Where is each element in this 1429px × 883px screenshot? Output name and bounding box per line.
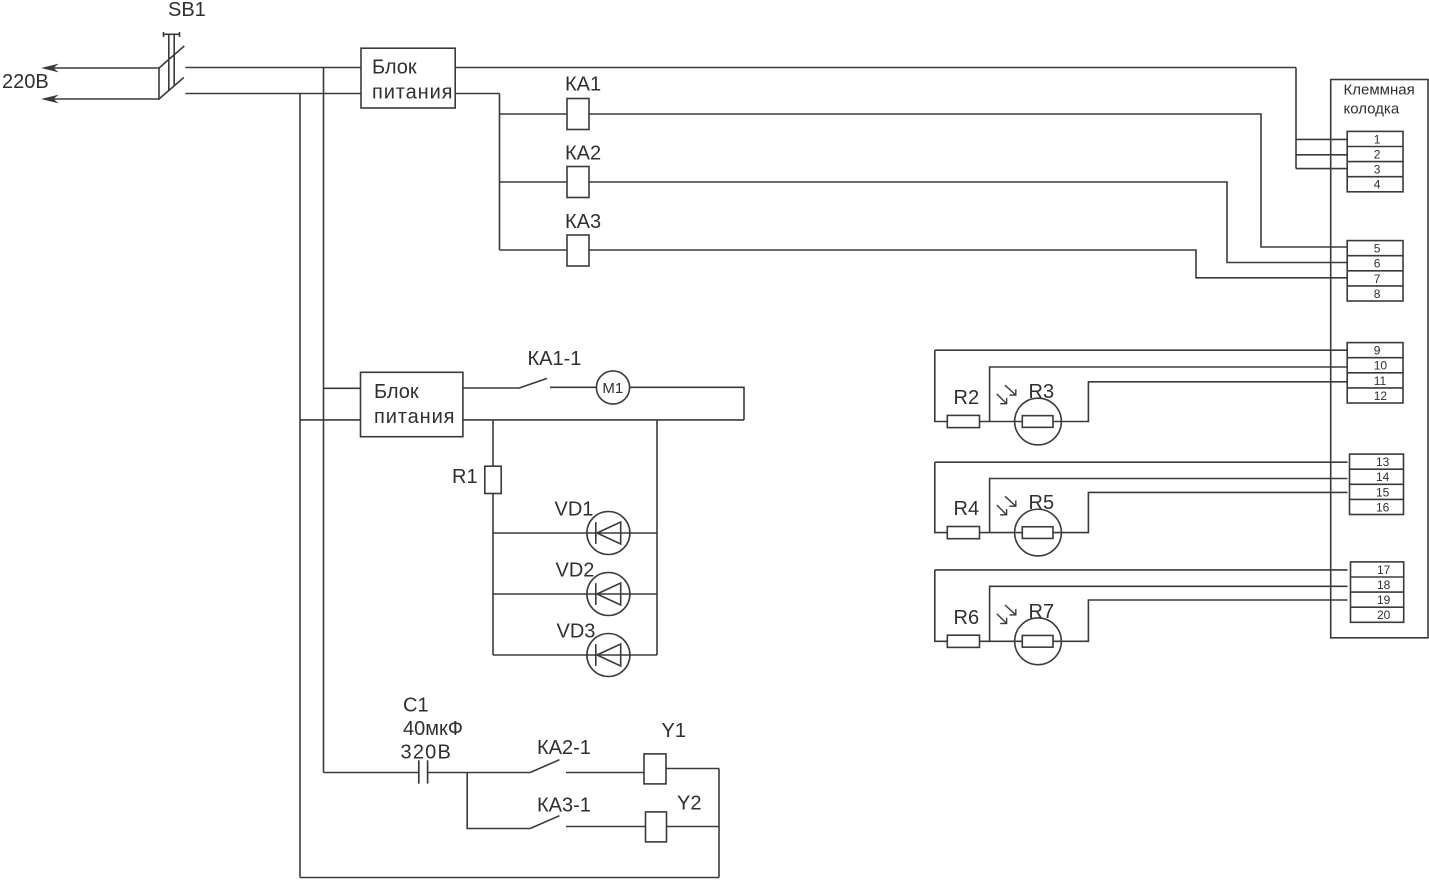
svg-text:11: 11 bbox=[1374, 374, 1387, 388]
wire into terminal 3 bbox=[1296, 168, 1348, 170]
svg-text:R3: R3 bbox=[1029, 381, 1055, 403]
svg-text:15: 15 bbox=[1376, 485, 1390, 499]
switch contact KA1-1 bbox=[519, 378, 548, 388]
svg-text:18: 18 bbox=[1377, 578, 1391, 592]
wire R5 to terminal (bottom tap) bbox=[1061, 492, 1347, 532]
svg-text:4: 4 bbox=[1374, 178, 1381, 192]
svg-text:Клеммная: Клеммная bbox=[1344, 82, 1415, 99]
wire switch KA3-1 to electromagnet Y2 bbox=[566, 826, 646, 828]
svg-text:КА3-1: КА3-1 bbox=[537, 795, 591, 817]
electromagnet Y2 bbox=[646, 812, 667, 842]
wire down to resistor R4 bbox=[935, 462, 948, 532]
svg-text:Y1: Y1 bbox=[662, 720, 686, 742]
svg-text:VD3: VD3 bbox=[557, 621, 596, 643]
resistor R1 bbox=[485, 466, 501, 493]
wire R6 circuit to terminal (top) bbox=[935, 569, 1348, 571]
label Клеммная колодка bbox=[1344, 82, 1415, 118]
svg-text:КА2-1: КА2-1 bbox=[537, 737, 591, 759]
power supply block 1 bbox=[361, 48, 455, 108]
wire vertical drop to terminals 1-3 bbox=[1295, 68, 1297, 169]
wire SB1 upper contact to power supply 1 bbox=[186, 67, 362, 69]
wire upper supply lead with arrow bbox=[41, 64, 159, 73]
terminal group 13-16 bbox=[1350, 454, 1404, 514]
wire Y2 to right return bus bbox=[667, 826, 720, 828]
svg-text:R6: R6 bbox=[954, 607, 980, 629]
wire branch down to switch KA3-1 bbox=[467, 773, 530, 829]
wire into terminal 2 bbox=[1296, 154, 1348, 156]
svg-text:КА1: КА1 bbox=[565, 74, 601, 96]
relay coil KA3 bbox=[567, 235, 589, 266]
svg-text:R4: R4 bbox=[954, 498, 980, 520]
wire bottom return bbox=[300, 877, 719, 879]
terminal group 1-4 bbox=[1347, 131, 1403, 191]
wire right return bus bbox=[718, 769, 720, 878]
svg-text:19: 19 bbox=[1377, 593, 1391, 607]
wire diode VD1 to right bus bbox=[630, 532, 657, 534]
svg-text:3: 3 bbox=[1374, 163, 1381, 177]
relay coil KA2 bbox=[567, 167, 589, 198]
svg-text:колодка: колодка bbox=[1344, 101, 1400, 118]
wire coil KA1 to terminal 5 bbox=[589, 114, 1348, 247]
svg-text:Блок: Блок bbox=[372, 57, 417, 79]
svg-text:2: 2 bbox=[1374, 147, 1381, 161]
wire right VD bus bbox=[656, 420, 658, 655]
wire down to resistor R2 bbox=[935, 350, 948, 421]
wire middle terminal tap of R3 bbox=[990, 367, 1348, 422]
wire middle terminal tap of R7 bbox=[990, 586, 1348, 641]
wire Y1 to right return bus bbox=[666, 768, 719, 770]
svg-text:13: 13 bbox=[1376, 455, 1390, 469]
wire bus 1 into power supply 2 lower input bbox=[300, 419, 361, 421]
resistor R4 bbox=[947, 527, 979, 539]
svg-text:16: 16 bbox=[1376, 500, 1390, 514]
wire power supply 1 top output to terminal bus bbox=[455, 67, 1296, 69]
terminal group 5-8 bbox=[1347, 241, 1403, 301]
svg-text:С1: С1 bbox=[403, 695, 429, 717]
wire capacitor C1 to switch KA2-1 bbox=[428, 772, 531, 774]
electromagnet Y1 bbox=[644, 754, 666, 784]
wire to diode VD1 bbox=[493, 532, 587, 534]
wire R2 to R3 bbox=[980, 421, 1015, 423]
wire down to resistor R1 bbox=[492, 420, 494, 466]
svg-text:R7: R7 bbox=[1029, 601, 1055, 623]
svg-text:5: 5 bbox=[1374, 242, 1381, 256]
svg-text:10: 10 bbox=[1374, 359, 1388, 373]
svg-text:14: 14 bbox=[1376, 470, 1390, 484]
wire R3 to terminal (bottom tap) bbox=[1061, 382, 1347, 422]
wire bus 2 to capacitor C1 bbox=[324, 772, 419, 774]
svg-text:R1: R1 bbox=[452, 466, 478, 488]
light arrows of R3 bbox=[997, 385, 1017, 404]
diode VD1 bbox=[587, 512, 630, 555]
svg-text:Y2: Y2 bbox=[677, 793, 701, 815]
wire diode VD3 to right bus bbox=[630, 654, 657, 656]
svg-text:6: 6 bbox=[1374, 257, 1381, 271]
wire R1 down to VD branches bbox=[492, 494, 494, 656]
terminal group 9-12 bbox=[1347, 343, 1403, 403]
wire to coil KA3 bbox=[500, 249, 568, 251]
svg-text:VD1: VD1 bbox=[555, 499, 594, 521]
wire R6 to R7 bbox=[980, 640, 1015, 642]
photoresistor R5 bbox=[1015, 509, 1062, 556]
wire switch KA1-1 to motor M1 bbox=[550, 386, 596, 388]
svg-text:20: 20 bbox=[1377, 608, 1391, 622]
resistor R2 bbox=[947, 415, 979, 427]
svg-text:7: 7 bbox=[1374, 272, 1381, 286]
svg-text:VD2: VD2 bbox=[556, 560, 595, 582]
svg-text:R2: R2 bbox=[954, 387, 980, 409]
wire lower supply lead with arrow bbox=[41, 95, 159, 104]
wire coil KA2 to terminal 6 bbox=[589, 182, 1348, 263]
diode VD3 bbox=[587, 634, 630, 677]
motor M1 bbox=[596, 371, 629, 404]
photoresistor R3 bbox=[1015, 398, 1062, 445]
wire diode VD2 to right bus bbox=[630, 593, 657, 595]
svg-text:R5: R5 bbox=[1029, 492, 1055, 514]
svg-text:1: 1 bbox=[1374, 132, 1381, 146]
wire R7 to terminal (bottom tap) bbox=[1061, 600, 1347, 641]
power supply block 2 bbox=[361, 372, 463, 436]
pushbutton SB1 (double-pole) bbox=[159, 32, 184, 100]
switch contact KA2-1 bbox=[530, 760, 559, 773]
svg-text:питания: питания bbox=[372, 82, 453, 104]
svg-text:М1: М1 bbox=[602, 380, 623, 397]
wire to coil KA1 bbox=[500, 113, 568, 115]
wire SB1 lower contact to power supply 1 bbox=[186, 93, 362, 95]
relay coil KA1 bbox=[567, 99, 589, 130]
svg-text:40мкФ: 40мкФ bbox=[403, 718, 463, 740]
light arrows of R5 bbox=[997, 496, 1017, 515]
wire to coil KA2 bbox=[500, 181, 568, 183]
wire vertical branch to relay coils bbox=[499, 94, 501, 251]
svg-text:12: 12 bbox=[1374, 389, 1388, 403]
svg-text:320В: 320В bbox=[401, 742, 453, 764]
wire R2 circuit to terminal (top) bbox=[935, 349, 1348, 351]
svg-text:Блок: Блок bbox=[374, 381, 419, 403]
photoresistor R7 bbox=[1015, 618, 1062, 665]
switch contact KA3-1 bbox=[530, 816, 559, 829]
wire power supply 1 lower output bbox=[455, 93, 499, 95]
svg-text:220В: 220В bbox=[2, 71, 49, 93]
svg-text:КА2: КА2 bbox=[565, 143, 601, 165]
svg-text:17: 17 bbox=[1377, 563, 1391, 577]
wire bus 2 into power supply 2 top input bbox=[324, 387, 361, 389]
wire R4 circuit to terminal (top) bbox=[935, 461, 1348, 463]
svg-text:питания: питания bbox=[374, 406, 455, 428]
svg-text:КА1-1: КА1-1 bbox=[528, 348, 582, 370]
wire left bus from lower pole down to bottom bbox=[299, 94, 301, 878]
light arrows of R7 bbox=[997, 605, 1017, 624]
wire second bus from upper pole down to C1 bbox=[323, 68, 325, 773]
wire power supply 2 lower output to right corner bbox=[463, 419, 744, 421]
wire motor M1 to right corner bbox=[629, 387, 744, 420]
wire power supply 2 top output to switch KA1-1 bbox=[463, 387, 519, 389]
wire into terminal 1 bbox=[1296, 138, 1348, 140]
resistor R6 bbox=[947, 635, 979, 647]
wire switch KA2-1 to electromagnet Y1 bbox=[566, 772, 644, 774]
svg-text:8: 8 bbox=[1374, 287, 1381, 301]
wire coil KA3 to terminal 7 bbox=[589, 250, 1348, 278]
wire down to resistor R6 bbox=[935, 570, 948, 641]
wire to diode VD2 bbox=[493, 593, 587, 595]
svg-text:SB1: SB1 bbox=[168, 0, 206, 21]
label C1 value bbox=[401, 695, 463, 764]
wire R4 to R5 bbox=[980, 532, 1015, 534]
terminal group 17-20 bbox=[1351, 562, 1404, 622]
wire to diode VD3 bbox=[493, 654, 587, 656]
diode VD2 bbox=[587, 573, 630, 616]
terminal block outline bbox=[1331, 80, 1428, 638]
svg-text:9: 9 bbox=[1374, 344, 1381, 358]
capacitor C1 bbox=[419, 760, 428, 783]
svg-text:КА3: КА3 bbox=[565, 211, 601, 233]
wire middle terminal tap of R5 bbox=[990, 479, 1348, 533]
